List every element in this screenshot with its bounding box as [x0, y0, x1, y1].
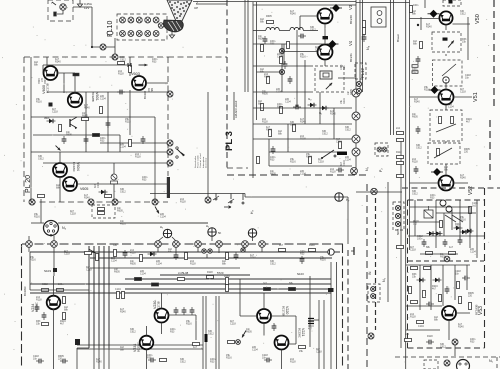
contact: [444, 360, 450, 366]
resistor: [42, 289, 49, 292]
svg-text:C612: C612: [440, 346, 446, 349]
wire: [269, 151, 340, 153]
small oval: [107, 31, 113, 35]
svg-text:R216: R216: [460, 219, 466, 222]
wire: [459, 200, 461, 240]
V53 inner partition: [408, 260, 484, 262]
wire: [73, 6, 92, 8]
wire: [244, 194, 246, 198]
resistor: [363, 21, 366, 28]
capacitor: [117, 90, 125, 95]
capacitor: [264, 358, 272, 363]
svg-text:Conmut. el red: Conmut. el red: [199, 153, 202, 168]
resistor: [42, 323, 49, 326]
PL10 pin b5: [153, 31, 159, 37]
svg-text:V220: V220: [285, 306, 289, 314]
stub: [28, 247, 30, 252]
switch bus wire: [150, 193, 245, 195]
svg-text:0603: 0603: [44, 117, 50, 120]
bus line: [336, 262, 338, 369]
resistor: [423, 291, 426, 298]
PL10 pin t5: [153, 17, 159, 23]
resistor: [129, 66, 132, 73]
wire from socket: [59, 222, 209, 224]
svg-text:R216: R216: [290, 161, 296, 164]
wire: [299, 16, 301, 30]
svg-text:R605: R605: [350, 89, 353, 95]
resistor: [114, 250, 117, 257]
capacitor: [123, 250, 128, 258]
rail: [252, 2, 254, 178]
svg-text:BC173B: BC173B: [157, 301, 161, 311]
svg-text:BC239C: BC239C: [23, 286, 27, 296]
wire: [43, 64, 130, 66]
trimmer: [241, 330, 247, 338]
svg-text:2n2: 2n2: [472, 205, 477, 208]
resistor: [226, 278, 229, 285]
contact: [395, 221, 400, 226]
svg-text:AM-AFC-LEAF: AM-AFC-LEAF: [234, 100, 238, 118]
rail: [30, 57, 32, 202]
wire: [324, 60, 326, 66]
bus wire y275: [160, 274, 250, 276]
diode: [465, 229, 474, 233]
wire: [419, 265, 421, 310]
svg-text:R605: R605: [266, 15, 272, 18]
wire: [436, 212, 476, 214]
svg-text:R33: R33: [470, 341, 475, 344]
stub: [244, 247, 246, 252]
contact bottom: [112, 199, 118, 205]
wire: [424, 0, 426, 8]
bus line x109: [108, 246, 110, 348]
resistor: [411, 301, 418, 304]
bus down: [76, 348, 78, 369]
FM bottom border: [402, 187, 500, 189]
contact strip y139: [352, 135, 360, 143]
resistor dark: [289, 288, 296, 291]
svg-text:R216: R216: [320, 259, 326, 262]
wire: [466, 265, 468, 290]
svg-text:BC239C: BC239C: [298, 328, 302, 338]
contact: [205, 197, 211, 203]
dark cap top: [449, 0, 453, 4]
indicator lamp H4: [208, 228, 216, 236]
svg-text:C612: C612: [120, 191, 126, 194]
capacitor: [106, 120, 111, 128]
page border dashed 2: [489, 120, 491, 180]
wire: [333, 108, 335, 139]
diode: [99, 190, 108, 194]
rail: [409, 0, 411, 250]
svg-text:C612: C612: [42, 283, 48, 286]
svg-text:R240: R240: [250, 257, 256, 260]
resistor: [439, 295, 442, 302]
trimmer in filter: [325, 82, 333, 90]
wire to lamp H7: [245, 196, 348, 198]
wire: [410, 96, 439, 98]
wire: [289, 343, 297, 345]
wire: [406, 329, 440, 331]
switch diagonal: [445, 215, 456, 222]
svg-text:C218: C218: [64, 253, 70, 256]
wire: [92, 46, 115, 48]
wire: [146, 350, 148, 369]
svg-text:C218: C218: [43, 78, 46, 84]
svg-text:C104: C104: [345, 159, 351, 162]
wire: [40, 199, 42, 223]
svg-text:R605: R605: [82, 115, 88, 118]
resistor: [412, 65, 418, 68]
bus bend: [77, 347, 89, 349]
wire: [445, 82, 447, 90]
indicator lamp H3: [163, 229, 171, 237]
svg-text:C612: C612: [208, 333, 214, 336]
indicator lamp H7: [335, 193, 343, 201]
svg-text:R33: R33: [300, 253, 305, 256]
svg-text:R33: R33: [142, 179, 147, 182]
wire: [57, 72, 75, 74]
wire: [244, 0, 246, 92]
tuner box bottom edge: [30, 201, 168, 203]
svg-text:N₄: N₄: [366, 45, 370, 50]
IF can 2: [433, 60, 463, 86]
capacitor: [272, 323, 277, 331]
small circle component 2: [446, 206, 452, 212]
enclosure bottom edge: [58, 222, 208, 224]
wire: [253, 107, 352, 109]
divider: [362, 0, 364, 92]
svg-text:R240: R240: [55, 61, 61, 64]
capacitor: [443, 239, 448, 247]
capacitor: [416, 56, 421, 64]
svg-text:V51: V51: [473, 92, 479, 102]
capacitor: [336, 168, 344, 173]
transistor V231 left: [140, 336, 154, 350]
svg-text:4k7: 4k7: [40, 78, 43, 83]
resistor: [267, 77, 270, 84]
wire: [253, 91, 313, 93]
svg-text:R240: R240: [300, 121, 306, 124]
wire: [31, 151, 168, 153]
capacitor: [283, 61, 288, 69]
contact: [167, 140, 173, 146]
wire: [263, 323, 265, 336]
svg-text:R33: R33: [147, 357, 152, 360]
wire stub: [52, 2, 56, 5]
section divider dashed: [366, 184, 368, 369]
resistor: [309, 157, 312, 164]
crystal inner: [323, 73, 329, 77]
wire: [338, 77, 356, 79]
resistor: [469, 303, 472, 310]
resistor dark: [264, 288, 271, 291]
dark glyph H8: [308, 319, 314, 324]
stub: [157, 247, 159, 252]
resistor dark: [93, 134, 100, 137]
main rail right: [405, 0, 407, 369]
capacitor: [84, 136, 89, 144]
capacitor: [263, 36, 268, 44]
resistor: [261, 104, 264, 111]
contact: [444, 256, 450, 262]
svg-text:PL12: PL12: [360, 68, 365, 78]
contact x54: [51, 241, 58, 248]
svg-text:R216: R216: [125, 121, 131, 124]
svg-text:V3: V3: [348, 4, 353, 10]
svg-text:R216: R216: [306, 156, 312, 159]
diode: [454, 226, 463, 230]
bus down: [103, 348, 105, 369]
svg-text:C104: C104: [252, 349, 258, 352]
resistor: [280, 107, 283, 114]
wire: [114, 38, 116, 57]
svg-text:R216: R216: [34, 216, 40, 219]
capacitor: [462, 276, 470, 281]
svg-text:2n2: 2n2: [405, 333, 410, 336]
wire: [454, 265, 456, 300]
capacitor: [190, 307, 195, 315]
capacitor: [362, 34, 367, 42]
wire: [309, 276, 311, 347]
svg-text:R118: R118: [262, 121, 268, 124]
wire: [442, 265, 444, 306]
svg-text:C218: C218: [410, 249, 416, 252]
capacitor: [42, 312, 47, 320]
resistor: [267, 21, 274, 24]
svg-text:Interrupteur: Interrupteur: [202, 156, 205, 168]
resistor: [412, 71, 418, 74]
svg-text:V231: V231: [133, 344, 137, 352]
svg-text:C612: C612: [270, 263, 276, 266]
contact bottom: [29, 199, 35, 205]
svg-text:C612: C612: [460, 13, 466, 16]
contact: [167, 149, 173, 155]
wire: [247, 0, 249, 92]
resistor: [397, 156, 404, 159]
svg-text:C104: C104: [277, 56, 283, 59]
svg-text:R118: R118: [180, 201, 186, 204]
contact strip y116: [352, 112, 360, 120]
svg-text:V50: V50: [475, 14, 481, 24]
PL10 pin b1: [120, 31, 126, 37]
svg-text:V234: V234: [31, 304, 35, 312]
wire: [253, 43, 325, 45]
lamp wire: [57, 10, 63, 14]
capacitor: [182, 307, 187, 315]
resistor: [257, 157, 260, 164]
resistor: [397, 162, 404, 165]
svg-text:R240: R240: [458, 326, 464, 329]
connector box: [368, 284, 380, 302]
wire: [445, 141, 447, 143]
svg-text:C612: C612: [310, 29, 316, 32]
svg-text:220: 220: [58, 358, 63, 361]
contact: [279, 69, 284, 74]
svg-text:5L08: 5L08: [182, 271, 189, 275]
resistor top: [410, 6, 413, 13]
svg-text:R118: R118: [135, 156, 141, 159]
wire: [282, 51, 317, 53]
capacitor: [288, 76, 293, 84]
svg-text:R605: R605: [262, 93, 268, 96]
cone dots: [169, 1, 171, 3]
wire down: [347, 197, 349, 244]
wire: [253, 65, 313, 67]
diagonal: [434, 148, 452, 158]
wire: [356, 191, 402, 193]
ground: [77, 0, 82, 7]
wire: [269, 165, 352, 167]
svg-text:R605: R605: [440, 256, 446, 259]
svg-text:C612: C612: [345, 129, 351, 132]
wire: [206, 254, 208, 258]
filled cap: [205, 334, 208, 342]
transistor V221 right: [275, 336, 289, 350]
svg-text:4k7: 4k7: [60, 323, 65, 326]
resistor: [440, 221, 443, 228]
wire top bus: [193, 1, 356, 3]
contact P2-1: [377, 147, 382, 152]
wire: [387, 182, 389, 302]
resistor: [105, 195, 112, 198]
resistor: [59, 125, 62, 132]
piano switch contacts: [213, 194, 244, 209]
dashed box dial-lamp unit: [48, 0, 73, 21]
transistor V3: [318, 9, 333, 24]
wire: [281, 44, 283, 92]
capacitor: [426, 302, 434, 307]
PL10 pin b2: [128, 31, 134, 37]
svg-text:4k7: 4k7: [466, 121, 471, 124]
svg-text:P₂: P₂: [379, 168, 383, 172]
resistor: [118, 62, 125, 65]
wire: [154, 117, 156, 202]
bottom strip border: [395, 356, 500, 358]
filled bar: [337, 152, 347, 156]
PL10 pin b4: [145, 31, 151, 37]
bus line: [205, 296, 207, 369]
contact: [395, 205, 400, 210]
filled square: [53, 268, 57, 272]
wire top right: [356, 2, 410, 4]
svg-text:1k2: 1k2: [147, 88, 150, 93]
small circle component: [440, 200, 446, 206]
switch arrow: [154, 206, 160, 214]
svg-text:Netzschalter: Netzschalter: [194, 156, 197, 168]
amp section right border: [342, 244, 344, 369]
svg-text:BC183B: BC183B: [475, 304, 479, 315]
bus line x89: [88, 246, 90, 348]
trimmer: [88, 248, 96, 254]
svg-text:C218: C218: [315, 49, 321, 52]
connector P2 box: [375, 143, 388, 156]
svg-text:N₄: N₄: [62, 226, 67, 230]
svg-text:C104: C104: [100, 98, 106, 101]
Netzschalter text block: [194, 153, 207, 168]
capacitor: [141, 136, 146, 144]
connector PL12 box: [355, 63, 366, 79]
bus line: [323, 300, 325, 369]
wire to socket: [31, 222, 44, 224]
contact on right edge: [167, 91, 173, 97]
bus line x99: [98, 246, 100, 348]
capacitor: [271, 146, 276, 154]
svg-text:R33: R33: [210, 361, 215, 364]
wire: [53, 309, 55, 369]
bus wire y258: [90, 257, 332, 259]
svg-text:V600: V600: [41, 84, 46, 94]
svg-text:C612: C612: [180, 361, 186, 364]
resistor: [178, 278, 185, 281]
IF can 3: [430, 110, 462, 141]
dark capacitor: [323, 36, 329, 39]
resistor: [339, 142, 342, 149]
wire: [410, 206, 470, 208]
wire: [113, 163, 115, 174]
bus down: [98, 348, 100, 369]
small contact: [208, 249, 212, 253]
diagonal in can: [442, 64, 456, 76]
resistor: [309, 249, 316, 252]
svg-text:BC239C: BC239C: [72, 162, 76, 172]
dark bar on tuner box right edge: [167, 177, 170, 198]
wire: [410, 221, 440, 223]
trimmer in can: [447, 40, 455, 49]
svg-text:R240: R240: [84, 197, 90, 200]
diode V50: [428, 10, 440, 18]
stub: [197, 247, 199, 252]
diode V602: [47, 119, 56, 123]
wire: [253, 123, 352, 125]
svg-text:R118: R118: [330, 171, 336, 174]
svg-text:C218: C218: [97, 182, 100, 188]
svg-text:N₅: N₅: [489, 359, 494, 363]
connector N4 box: [371, 7, 386, 27]
wire: [85, 92, 87, 152]
resistor dark: [135, 278, 142, 281]
svg-text:C612: C612: [416, 147, 422, 150]
svg-text:C218: C218: [336, 141, 342, 144]
contact x176: [173, 241, 180, 248]
dark capacitor in can: [443, 38, 448, 41]
resistor: [287, 42, 290, 49]
svg-text:R240: R240: [224, 275, 230, 278]
svg-text:C104: C104: [120, 146, 126, 149]
diode G2: [308, 103, 317, 107]
svg-text:G₁: G₁: [319, 111, 322, 115]
svg-text:C104: C104: [111, 260, 117, 263]
svg-text:S103: S103: [44, 269, 51, 273]
divider: [359, 0, 361, 92]
wire: [406, 264, 470, 266]
bus line: [318, 300, 320, 369]
resistor: [269, 130, 272, 137]
bus wire y279: [125, 278, 331, 280]
svg-text:V605: V605: [80, 187, 88, 191]
svg-text:Power switch: Power switch: [197, 154, 200, 168]
svg-text:R605: R605: [117, 210, 123, 213]
capacitor: [293, 105, 301, 110]
wire: [410, 18, 440, 20]
switch diagonal 2: [452, 215, 463, 222]
filled part: [75, 339, 80, 345]
capacitor: [60, 359, 68, 364]
diode: [434, 231, 443, 235]
DIN socket N4: [44, 221, 59, 237]
PL10 pin t4: [145, 17, 151, 23]
wire: [314, 319, 319, 321]
